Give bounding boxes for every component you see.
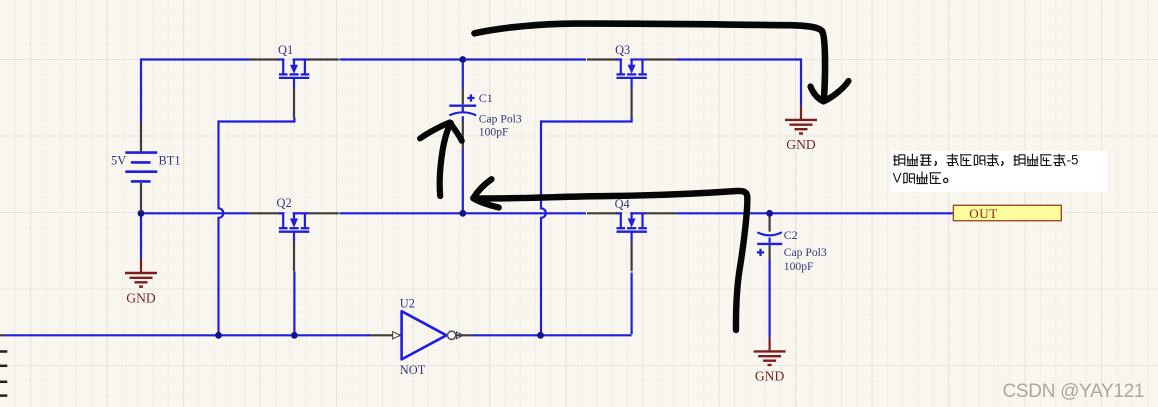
transistor Q1 bbox=[249, 60, 338, 118]
wire vertical battery top bbox=[140, 58, 142, 122]
svg-text:NOT: NOT bbox=[400, 363, 426, 377]
node Q3 gate net junction bbox=[537, 332, 544, 339]
wire top rail Q3 to right corner bbox=[676, 58, 801, 60]
annotation chinese text line 1 bbox=[893, 152, 1078, 167]
transistor Q4 bbox=[587, 213, 676, 271]
svg-text:100pF: 100pF bbox=[784, 260, 814, 273]
wire top rail Q1 to Q3 (node with C1 top) bbox=[340, 58, 587, 60]
wire C1 top stub bbox=[462, 60, 464, 90]
ground top right bbox=[785, 106, 817, 134]
wire Q2 gate to bottom rail bbox=[293, 272, 295, 336]
node Q2 gate net junction bbox=[291, 332, 298, 339]
wire middle rail Q2 to Q4 (node with C1 bottom) bbox=[340, 212, 587, 214]
wire Q3 gate elbow vertical with hop over middle rail bbox=[541, 120, 546, 335]
node C2 junction bbox=[766, 210, 773, 217]
ground at battery bbox=[125, 259, 157, 287]
wire C2 bottom to GND bbox=[768, 260, 770, 338]
wire Q1 gate elbow horizontal bbox=[219, 120, 295, 122]
node C1 top junction bbox=[459, 56, 466, 63]
inverter U2 bbox=[371, 311, 473, 359]
wire middle rail Q4 to OUT (node with C2) bbox=[676, 212, 953, 214]
ground at C2 bbox=[754, 337, 786, 365]
svg-text:GND: GND bbox=[126, 290, 156, 305]
wire Q3 gate vertical stub bbox=[630, 117, 632, 123]
annotation arrow up at C1 bbox=[440, 123, 451, 196]
wire Q1 gate vertical stub bbox=[293, 118, 295, 123]
wire Q3 gate elbow horizontal bbox=[541, 120, 632, 122]
transistor Q3 bbox=[587, 60, 676, 118]
node battery minus junction bbox=[138, 210, 145, 217]
transistor Q2 bbox=[249, 213, 338, 271]
wire bottom rail stub black tick bbox=[0, 334, 5, 336]
wire Q4 gate to bottom rail corner bbox=[630, 273, 632, 335]
svg-text:Q1: Q1 bbox=[278, 43, 293, 57]
node C1 bottom junction bbox=[459, 210, 466, 217]
annotation arrow left along middle rail bbox=[474, 191, 748, 330]
capacitor C2 bbox=[757, 216, 782, 259]
svg-text:U2: U2 bbox=[400, 296, 415, 310]
wire bottom rail to U2 input bbox=[5, 334, 371, 336]
svg-text:Cap Pol3: Cap Pol3 bbox=[479, 112, 522, 125]
capacitor C1 bbox=[449, 89, 476, 150]
svg-text:BT1: BT1 bbox=[159, 153, 181, 167]
wire top rail from BT1 to Q1 bbox=[141, 58, 250, 60]
port OUT bbox=[953, 205, 1061, 221]
annotation note box bbox=[891, 151, 1107, 192]
wire U2 output to Q4 gate corner bbox=[473, 334, 632, 336]
wire right vertical to GND bbox=[800, 58, 802, 105]
pin stubs cropped at left edge bbox=[0, 352, 7, 396]
svg-text:CSDN @YAY121: CSDN @YAY121 bbox=[1003, 381, 1145, 402]
annotation arrow to top-right ground bbox=[475, 24, 826, 100]
node Q1 gate net junction bbox=[215, 332, 222, 339]
svg-text:C1: C1 bbox=[479, 91, 493, 105]
svg-text:Q3: Q3 bbox=[615, 43, 630, 57]
svg-text:Q2: Q2 bbox=[277, 196, 292, 210]
svg-text:-5: -5 bbox=[1067, 152, 1079, 167]
svg-text:GND: GND bbox=[755, 369, 785, 384]
svg-text:OUT: OUT bbox=[969, 206, 998, 221]
svg-text:5V: 5V bbox=[111, 153, 126, 167]
wire C1 bottom to middle rail bbox=[462, 150, 464, 214]
svg-text:Cap Pol3: Cap Pol3 bbox=[784, 246, 827, 259]
annotation chinese text line 2 bbox=[893, 170, 948, 185]
wire battery minus to GND bbox=[140, 213, 142, 258]
svg-text:V: V bbox=[893, 170, 902, 185]
wire middle rail BT1 minus to Q2 bbox=[141, 212, 250, 214]
svg-text:C2: C2 bbox=[784, 228, 798, 242]
svg-text:100pF: 100pF bbox=[479, 125, 509, 138]
wire Q1 gate elbow vertical with hop over middle rail bbox=[219, 120, 224, 335]
battery BT1 bbox=[125, 122, 157, 212]
svg-text:GND: GND bbox=[786, 137, 816, 152]
